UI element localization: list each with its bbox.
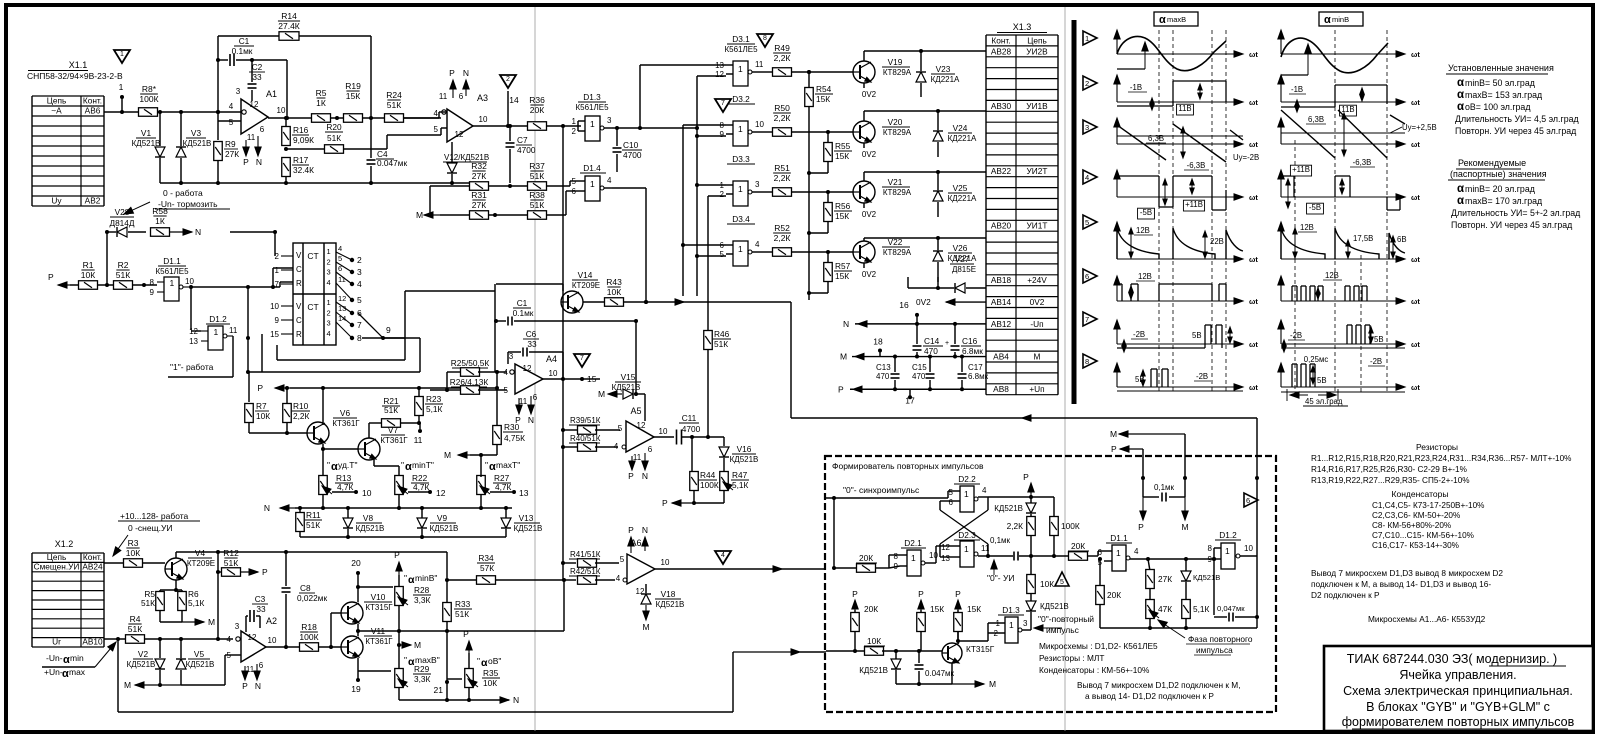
svg-text:1: 1 (738, 124, 743, 134)
svg-text:33: 33 (256, 604, 266, 614)
svg-text:15К: 15К (967, 604, 981, 614)
svg-text:V6: V6 (340, 408, 351, 418)
svg-text:"0"- синхроимпульс: "0"- синхроимпульс (843, 485, 920, 495)
svg-text:С7,С10...С15- КМ-56+-10%: С7,С10...С15- КМ-56+-10% (1372, 531, 1474, 540)
svg-text:V10: V10 (371, 592, 386, 602)
svg-text:V13: V13 (519, 513, 534, 523)
svg-text:N: N (642, 471, 648, 481)
svg-text:1: 1 (1085, 34, 1089, 43)
svg-text:Резисторы: Резисторы (1416, 442, 1458, 452)
svg-text:КД521В: КД521В (1193, 573, 1220, 582)
svg-text:ωt: ωt (1249, 140, 1258, 149)
svg-text:X1.1: X1.1 (69, 60, 88, 70)
svg-text:Формирователь повторных импуль: Формирователь повторных импульсов (832, 461, 984, 471)
svg-text:15: 15 (270, 330, 279, 339)
svg-text:R2: R2 (118, 260, 129, 270)
svg-text:1: 1 (911, 553, 916, 563)
svg-text:1: 1 (1009, 620, 1014, 630)
svg-text:α: α (1159, 14, 1166, 26)
svg-text:R36: R36 (529, 95, 545, 105)
svg-text:АВ28: АВ28 (991, 46, 1012, 56)
svg-text:АВ18: АВ18 (991, 275, 1012, 285)
svg-text:Конденсаторы : КМ-56+-10%: Конденсаторы : КМ-56+-10% (1039, 665, 1150, 675)
svg-text:α: α (1457, 89, 1464, 101)
svg-text:1: 1 (738, 64, 743, 74)
svg-text:М: М (598, 389, 605, 399)
svg-text:R34: R34 (478, 553, 494, 563)
svg-text:4: 4 (504, 368, 509, 377)
svg-text:0.047мк: 0.047мк (377, 158, 407, 168)
svg-text:3,3К: 3,3К (414, 595, 431, 605)
svg-text:5В: 5В (1192, 331, 1202, 340)
svg-text:ωt: ωt (1249, 193, 1258, 202)
svg-text:2,2К: 2,2К (1007, 521, 1024, 531)
svg-text:P: P (242, 681, 248, 691)
svg-text:1К: 1К (155, 216, 165, 226)
svg-text:5: 5 (1085, 218, 1089, 227)
svg-text:α: α (489, 461, 496, 473)
svg-text:α: α (62, 668, 69, 680)
svg-text:1: 1 (572, 117, 577, 126)
svg-text:УИ2Т: УИ2Т (1027, 166, 1048, 176)
svg-text:N: N (843, 319, 849, 329)
svg-text:12: 12 (941, 543, 950, 552)
svg-text:+11В: +11В (1292, 165, 1310, 174)
svg-text:51К: 51К (128, 624, 142, 634)
svg-text:-2В: -2В (1290, 331, 1302, 340)
svg-text:М: М (840, 352, 847, 362)
svg-text:V8: V8 (363, 513, 374, 523)
svg-text:4: 4 (327, 329, 331, 338)
svg-text:V15: V15 (621, 372, 636, 382)
svg-text:V28: V28 (115, 207, 130, 217)
svg-text:1: 1 (1116, 548, 1121, 558)
svg-text:8: 8 (894, 552, 899, 561)
svg-text:4: 4 (755, 240, 760, 249)
svg-text:-5В: -5В (1140, 208, 1152, 217)
svg-text:V25: V25 (953, 183, 968, 193)
svg-text:1: 1 (170, 278, 175, 288)
svg-text:R19: R19 (345, 81, 361, 91)
svg-text:R31: R31 (471, 190, 487, 200)
svg-text:АВ22: АВ22 (991, 166, 1012, 176)
svg-text:A1: A1 (266, 89, 277, 99)
svg-text:P: P (449, 68, 455, 78)
svg-text:minB: minB (1332, 15, 1349, 24)
svg-text:4: 4 (614, 442, 619, 451)
svg-text:α: α (1457, 195, 1464, 207)
svg-text:0V2: 0V2 (862, 270, 877, 279)
svg-text:ωt: ωt (1411, 297, 1420, 306)
svg-text:КД521В: КД521В (183, 139, 212, 148)
svg-text:4: 4 (616, 574, 621, 583)
svg-text:R37: R37 (529, 161, 545, 171)
svg-text:1: 1 (590, 119, 595, 129)
svg-text:2: 2 (720, 190, 725, 199)
svg-text:0V2: 0V2 (916, 297, 931, 307)
svg-text:КТ209Е: КТ209Е (187, 559, 215, 568)
svg-text:С15: С15 (912, 363, 927, 372)
svg-text:V4: V4 (195, 548, 206, 558)
svg-text:1: 1 (275, 266, 280, 275)
svg-text:R1...R12,R15,R18,R20,R21,R23,R: R1...R12,R15,R18,R20,R21,R23,R24,R31...R… (1311, 454, 1571, 463)
svg-text:16: 16 (899, 300, 909, 310)
svg-text:R24: R24 (386, 90, 402, 100)
svg-text:9: 9 (150, 288, 155, 297)
svg-text:1: 1 (964, 489, 969, 499)
svg-text:Р: Р (394, 550, 400, 560)
svg-text:4: 4 (357, 279, 362, 289)
svg-text:R: R (296, 330, 302, 339)
svg-text:АВ14: АВ14 (991, 297, 1012, 307)
svg-text:0,022мк: 0,022мк (297, 593, 327, 603)
svg-text:Uy=-2В: Uy=-2В (1233, 153, 1259, 162)
svg-text:С16,С17- К53-14+-30%: С16,С17- К53-14+-30% (1372, 541, 1459, 550)
svg-text:-2В: -2В (1196, 372, 1208, 381)
svg-text:27К: 27К (1158, 574, 1172, 584)
svg-text:4: 4 (1134, 547, 1139, 556)
svg-text:8: 8 (357, 333, 362, 343)
svg-text:2: 2 (327, 257, 331, 266)
svg-text:N: N (642, 525, 648, 535)
svg-text:АВ30: АВ30 (991, 101, 1012, 111)
svg-text:С2,С3,С6- КМ-50+-20%: С2,С3,С6- КМ-50+-20% (1372, 511, 1460, 520)
svg-text:Ячейка управления.: Ячейка управления. (1399, 668, 1516, 682)
svg-text:КТ361Г: КТ361Г (380, 436, 408, 445)
svg-text:45 эл.град: 45 эл.град (1305, 397, 1343, 406)
svg-text:В блоках "GYB" и "GYB+GLM" с: В блоках "GYB" и "GYB+GLM" с (1366, 700, 1550, 714)
svg-text:3: 3 (236, 87, 241, 96)
svg-text:100К: 100К (299, 632, 318, 642)
svg-text:Р: Р (852, 589, 858, 599)
svg-text:3: 3 (509, 352, 514, 361)
svg-text:10: 10 (755, 120, 764, 129)
svg-text:R50: R50 (774, 103, 790, 113)
svg-text:12В: 12В (1325, 271, 1339, 280)
svg-text:КТ361Г: КТ361Г (332, 419, 360, 428)
svg-text:5: 5 (434, 125, 439, 134)
svg-text:-2В: -2В (1370, 357, 1382, 366)
svg-text:Д815Е: Д815Е (952, 265, 976, 274)
svg-text:min: min (70, 653, 84, 663)
svg-text:С17: С17 (968, 363, 983, 372)
svg-text:1: 1 (1225, 546, 1230, 556)
svg-text:R32: R32 (471, 161, 487, 171)
svg-text:3: 3 (1085, 123, 1089, 132)
svg-text:N: N (255, 681, 261, 691)
svg-text:V24: V24 (953, 123, 968, 133)
svg-text:Конденсаторы: Конденсаторы (1392, 489, 1449, 499)
svg-text:0 - работа: 0 - работа (163, 188, 203, 198)
svg-text:0 -снещ.УИ: 0 -снещ.УИ (128, 523, 172, 533)
svg-text:3: 3 (357, 267, 362, 277)
svg-text:М: М (208, 617, 215, 627)
svg-text:М: М (416, 210, 423, 220)
svg-text:3: 3 (327, 268, 331, 277)
svg-text:5,1К: 5,1К (732, 480, 749, 490)
svg-text:D1.2: D1.2 (1219, 530, 1237, 540)
svg-text:6,3В: 6,3В (1308, 115, 1324, 124)
svg-text:D1.4: D1.4 (583, 163, 601, 173)
svg-text:Д814Д: Д814Д (109, 218, 134, 228)
svg-text:R44: R44 (700, 470, 716, 480)
svg-text:-Uп: -Uп (1030, 319, 1043, 329)
svg-text:0,047мк: 0,047мк (1217, 604, 1245, 613)
svg-text:К561ЛЕ5: К561ЛЕ5 (155, 267, 189, 276)
svg-text:33: 33 (252, 72, 262, 82)
svg-text:7: 7 (1085, 315, 1089, 324)
svg-text:CT: CT (307, 251, 318, 261)
svg-text:1: 1 (327, 247, 331, 256)
svg-text:М: М (414, 640, 421, 650)
svg-text:9: 9 (720, 130, 725, 139)
svg-text:Фаза повторного: Фаза повторного (1188, 634, 1253, 644)
svg-text:maxТ": maxТ" (496, 460, 520, 470)
svg-text:P: P (628, 471, 634, 481)
svg-text:КД521В: КД521В (859, 666, 888, 675)
svg-text:0.047мк: 0.047мк (925, 669, 955, 678)
svg-text:10: 10 (362, 488, 372, 498)
svg-text:КТ829А: КТ829А (883, 248, 912, 257)
svg-text:Повторн. УИ через 45 эл.град: Повторн. УИ через 45 эл.град (1455, 126, 1576, 136)
svg-text:R11: R11 (306, 510, 321, 520)
svg-text:A3: A3 (477, 93, 488, 103)
svg-text:9: 9 (386, 325, 391, 335)
svg-text:11: 11 (755, 60, 764, 69)
svg-text:2,2К: 2,2К (293, 411, 310, 421)
svg-text:R58: R58 (152, 206, 168, 216)
svg-text:6: 6 (459, 92, 464, 101)
svg-text:АВ4: АВ4 (993, 352, 1009, 362)
svg-text:13: 13 (715, 61, 724, 70)
svg-text:КД221А: КД221А (948, 134, 977, 143)
svg-text:V2: V2 (138, 649, 149, 659)
svg-text:": " (485, 460, 488, 470)
svg-text:α: α (331, 461, 338, 473)
svg-text:АВ6: АВ6 (85, 106, 101, 116)
svg-text:2: 2 (275, 252, 280, 261)
svg-text:подключен к М, а вывод 14- D1: подключен к М, а вывод 14- D1,D3 и вывод… (1311, 579, 1491, 589)
svg-text:9: 9 (275, 316, 280, 325)
svg-text:5: 5 (1060, 579, 1064, 586)
svg-text:6.8мк: 6.8мк (962, 346, 983, 356)
svg-text:2,2К: 2,2К (774, 233, 791, 243)
svg-text:3,3К: 3,3К (414, 674, 431, 684)
svg-text:~А: ~А (51, 106, 62, 116)
svg-text:формирователем повторных импул: формирователем повторных импульсов (1342, 715, 1575, 729)
svg-text:+: + (945, 340, 949, 347)
svg-text:12: 12 (637, 421, 646, 430)
svg-text:4,7К: 4,7К (413, 482, 430, 492)
svg-text:1: 1 (738, 244, 743, 254)
svg-text:Микросхемы А1...А6- К553УД2: Микросхемы А1...А6- К553УД2 (1368, 614, 1486, 624)
svg-text:1: 1 (964, 544, 969, 554)
svg-text:0,1мк: 0,1мк (990, 536, 1011, 545)
svg-text:13: 13 (519, 488, 529, 498)
svg-text:С8- КМ-56+80%-20%: С8- КМ-56+80%-20% (1372, 521, 1451, 530)
svg-text:1К: 1К (316, 98, 326, 108)
svg-text:КД521В: КД521В (994, 504, 1023, 513)
svg-text:R12: R12 (223, 548, 239, 558)
svg-text:R: R (296, 279, 302, 288)
svg-text:R23: R23 (426, 394, 442, 404)
svg-text:10: 10 (185, 277, 194, 286)
svg-text:7: 7 (580, 355, 584, 362)
svg-text:11: 11 (439, 92, 448, 101)
svg-text:Установленные значения: Установленные значения (1448, 63, 1554, 73)
svg-text:max: max (69, 667, 86, 677)
svg-text:2,2К: 2,2К (774, 113, 791, 123)
svg-text:5: 5 (949, 488, 954, 497)
svg-text:2: 2 (1085, 79, 1089, 88)
svg-text:100К: 100К (1061, 521, 1080, 531)
svg-text:Длительность УИ= 5+-2 эл.град: Длительность УИ= 5+-2 эл.град (1451, 208, 1580, 218)
svg-text:P: P (628, 525, 634, 535)
svg-text:R1: R1 (83, 260, 94, 270)
svg-text:13: 13 (338, 304, 346, 313)
svg-text:C: C (296, 265, 302, 274)
svg-text:4,75К: 4,75К (504, 433, 525, 443)
svg-text:Uy=+2,5В: Uy=+2,5В (1402, 123, 1437, 132)
svg-text:АВ20: АВ20 (991, 221, 1012, 231)
svg-text:51К: 51К (455, 609, 469, 619)
svg-text:оВ": оВ" (488, 656, 501, 666)
svg-text:minB= 20 эл.град: minB= 20 эл.град (1465, 184, 1535, 194)
svg-text:R28: R28 (414, 585, 430, 595)
svg-text:A2: A2 (266, 616, 277, 626)
svg-text:R10: R10 (293, 401, 309, 411)
svg-text:М: М (989, 679, 996, 689)
svg-text:C14: C14 (924, 336, 940, 346)
svg-text:V27: V27 (955, 254, 970, 264)
svg-text:"0"- УИ: "0"- УИ (987, 573, 1014, 583)
svg-text:+Uп: +Uп (1029, 384, 1044, 394)
svg-text:11: 11 (414, 435, 423, 445)
svg-text:α: α (1324, 14, 1331, 26)
svg-text:ωt: ωt (1249, 50, 1258, 59)
svg-text:27К: 27К (472, 171, 486, 181)
svg-text:11: 11 (338, 275, 346, 284)
svg-text:α: α (1457, 77, 1464, 89)
svg-text:1: 1 (738, 184, 743, 194)
svg-text:ωt: ωt (1249, 340, 1258, 349)
svg-text:R56: R56 (835, 201, 851, 211)
svg-text:7: 7 (275, 280, 280, 289)
svg-text:Р: Р (955, 589, 961, 599)
svg-text:0.1мк: 0.1мк (513, 308, 534, 318)
svg-text:15К: 15К (835, 271, 849, 281)
svg-text:М: М (1110, 429, 1117, 439)
svg-text:6: 6 (338, 264, 342, 273)
svg-text:V21: V21 (888, 177, 903, 187)
svg-text:6.8мк: 6.8мк (968, 372, 989, 381)
svg-text:2: 2 (994, 629, 999, 638)
svg-text:С13: С13 (876, 363, 891, 372)
svg-text:0V2: 0V2 (862, 150, 877, 159)
svg-text:C: C (296, 316, 302, 325)
svg-text:minВ": minВ" (415, 573, 437, 583)
svg-text:51К: 51К (327, 133, 341, 143)
svg-text:М: М (642, 622, 649, 632)
svg-text:maxB: maxB (1167, 15, 1186, 24)
svg-text:8: 8 (1208, 544, 1213, 553)
svg-text:10К: 10К (126, 548, 140, 558)
svg-text:D1.2: D1.2 (209, 314, 227, 324)
svg-text:4: 4 (327, 278, 331, 287)
svg-text:8: 8 (1085, 357, 1089, 366)
svg-text:5,1К: 5,1К (426, 404, 443, 414)
svg-text:12: 12 (250, 100, 259, 109)
svg-text:АВ8: АВ8 (993, 384, 1009, 394)
svg-text:Вывод 7 микросхем D1,D3 вывод: Вывод 7 микросхем D1,D3 вывод 8 микросхе… (1311, 568, 1503, 578)
svg-text:+11В: +11В (1185, 200, 1203, 209)
svg-text:oB= 100 эл.град: oB= 100 эл.град (1465, 102, 1530, 112)
svg-text:9: 9 (1208, 555, 1213, 564)
svg-text:1: 1 (996, 619, 1001, 628)
svg-text:КТ315Г: КТ315Г (966, 644, 995, 654)
svg-text:12: 12 (248, 633, 257, 642)
svg-text:ωt: ωt (1411, 98, 1420, 107)
svg-text:R20: R20 (326, 122, 342, 132)
svg-text:α: α (63, 654, 70, 666)
svg-text:3: 3 (235, 622, 240, 631)
svg-text:1: 1 (214, 327, 219, 337)
svg-text:Р: Р (662, 498, 668, 508)
svg-text:17,5В: 17,5В (1353, 234, 1373, 243)
svg-text:2: 2 (572, 127, 577, 136)
svg-text:+Un-: +Un- (44, 667, 63, 677)
svg-text:R47: R47 (732, 470, 748, 480)
svg-text:R55: R55 (835, 141, 851, 151)
svg-text:": " (401, 460, 404, 470)
svg-text:КД521В: КД521В (656, 600, 685, 609)
svg-text:D2 подключен к Р: D2 подключен к Р (1311, 590, 1380, 600)
svg-text:10К: 10К (256, 411, 270, 421)
svg-text:1: 1 (120, 51, 124, 58)
svg-text:5: 5 (338, 254, 342, 263)
svg-text:5,1К: 5,1К (1193, 604, 1210, 614)
svg-text:10: 10 (661, 558, 670, 567)
svg-text:1: 1 (590, 179, 595, 189)
svg-text:27.4К: 27.4К (278, 21, 300, 31)
svg-text:10: 10 (268, 636, 277, 645)
svg-text:Р: Р (463, 629, 469, 639)
svg-text:4700: 4700 (623, 150, 642, 160)
svg-text:100К: 100К (139, 94, 158, 104)
svg-text:КТ315Г: КТ315Г (365, 603, 393, 612)
svg-text:18: 18 (873, 337, 883, 347)
svg-text:12: 12 (436, 488, 446, 498)
svg-text:5: 5 (227, 651, 232, 660)
svg-text:ωt: ωt (1411, 383, 1420, 392)
svg-text:К561ЛЕ5: К561ЛЕ5 (724, 45, 758, 54)
svg-text:R38: R38 (529, 190, 545, 200)
svg-text:6: 6 (949, 498, 954, 507)
svg-text:11: 11 (229, 326, 238, 335)
svg-text:5: 5 (618, 424, 623, 433)
svg-text:0V2: 0V2 (862, 90, 877, 99)
svg-text:51К: 51К (224, 558, 238, 568)
svg-text:51К: 51К (384, 405, 398, 415)
svg-text:+24V: +24V (1027, 275, 1047, 285)
svg-text:N: N (195, 227, 201, 237)
svg-text:5: 5 (229, 118, 234, 127)
svg-text:R39/51К: R39/51К (570, 416, 601, 425)
svg-text:4: 4 (607, 176, 612, 185)
svg-text:6: 6 (533, 393, 538, 402)
svg-text:Р: Р (918, 589, 924, 599)
svg-text:УИ1В: УИ1В (1026, 101, 1048, 111)
